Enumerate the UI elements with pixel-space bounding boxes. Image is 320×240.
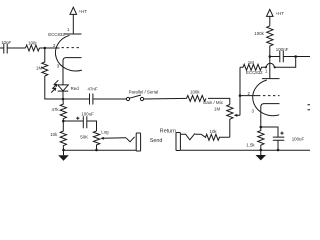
tube envelope V1b	[253, 80, 279, 116]
resistor 100k anode load	[254, 26, 273, 57]
svg-text:Log: Log	[101, 129, 109, 134]
wire 100uF to pot top	[87, 121, 97, 131]
pin 3 cathode V1a	[63, 58, 82, 85]
svg-text:100r: 100r	[28, 40, 37, 45]
node pot bottom on ground rail	[95, 149, 98, 152]
node grid V1b junction	[239, 94, 242, 97]
wire output to edge	[296, 56, 310, 58]
svg-text:100uF: 100uF	[292, 137, 305, 142]
wire anode node down to plate	[269, 57, 271, 79]
node clipped marks right edge	[308, 105, 311, 110]
wire +HT2 to 100k	[269, 16, 271, 26]
wire input stub	[0, 47, 4, 49]
resistor 1M feedback	[240, 60, 266, 70]
svg-text:ECC832: ECC832	[246, 70, 263, 75]
wire ground rail right	[181, 149, 310, 151]
wire grid node to tube	[240, 95, 258, 97]
capacitor 100nF output coupling	[276, 47, 289, 62]
svg-text:1.5k: 1.5k	[246, 142, 255, 147]
svg-text:1M: 1M	[36, 65, 42, 70]
resistor 100r grid stopper	[26, 40, 40, 51]
capacitor 100uF cathode bypass 2	[273, 132, 305, 151]
svg-text:1M: 1M	[214, 107, 220, 112]
svg-text:+HT: +HT	[276, 11, 285, 16]
wire +HT to plate	[72, 14, 74, 34]
capacitor 10nF input	[1, 40, 11, 54]
svg-text:+HT: +HT	[79, 9, 88, 14]
node cathode V1b junction	[260, 126, 263, 129]
svg-text:Return: Return	[160, 129, 176, 135]
svg-text:10k: 10k	[50, 132, 58, 137]
svg-text:Parallel / Serial: Parallel / Serial	[129, 90, 159, 95]
tube envelope V1a	[55, 35, 81, 71]
svg-text:10nF: 10nF	[1, 40, 11, 45]
wire 100k to pot top	[208, 98, 230, 104]
capacitor 100uF cathode bypass 1	[76, 111, 94, 128]
wire 47nF to switch	[93, 98, 127, 100]
resistor 1M grid leak V1a	[36, 48, 48, 76]
ground symbol 2	[256, 150, 267, 160]
wire LED to node	[62, 91, 64, 99]
connector Return jack	[160, 129, 196, 151]
pin 2 grid V1b	[258, 95, 280, 97]
pin 2 grid V1a	[62, 47, 82, 49]
capacitor 47nF coupling	[88, 87, 98, 105]
op-amp V1a triode ECC832	[48, 27, 82, 85]
wire node to 47nF	[63, 98, 90, 100]
node 100uF bottom on rail	[277, 149, 280, 152]
svg-text:50K: 50K	[80, 134, 88, 139]
svg-text:Red: Red	[71, 86, 80, 91]
svg-text:100uF: 100uF	[81, 111, 94, 116]
node output junction	[294, 55, 297, 58]
resistor 10k	[50, 121, 66, 150]
resistor 10k return	[196, 129, 230, 141]
svg-text:100nF: 100nF	[276, 47, 289, 52]
resistor 47k	[52, 99, 67, 121]
potentiometer 1M Gain/Mix	[203, 100, 240, 138]
svg-text:1M: 1M	[248, 60, 254, 65]
resistor 100k dry mix	[187, 90, 206, 102]
wire cathode node to 100uF	[261, 127, 278, 137]
pin 1 anode V1b	[262, 78, 280, 80]
node 1.5k bottom on rail	[260, 149, 263, 152]
wire 1M bottom to cathode node	[45, 76, 63, 99]
svg-text:47nF: 47nF	[88, 87, 98, 92]
op-amp V1b triode ECC832	[246, 69, 280, 127]
wire anode node to cap	[270, 56, 280, 58]
connector Send jack	[126, 133, 162, 151]
pin 3 cathode V1b	[261, 104, 280, 127]
potentiometer 50k Log send level	[80, 129, 126, 150]
resistor 1.5k cathode	[246, 127, 264, 150]
LED D1 Red bias	[51, 80, 79, 92]
ground symbol 1	[58, 150, 69, 161]
svg-text:10k: 10k	[210, 129, 218, 134]
wire cap to output node	[283, 56, 295, 58]
node anode junction	[269, 55, 272, 58]
node 47k-10k junction	[62, 120, 65, 123]
wire grid node vertical	[239, 67, 241, 115]
wire	[7, 47, 25, 49]
svg-text:47k: 47k	[52, 107, 60, 112]
power +HT supply 2	[267, 9, 285, 16]
svg-text:100k: 100k	[254, 31, 264, 36]
node cathode-output junction	[62, 98, 65, 101]
svg-text:ECC832: ECC832	[48, 32, 65, 37]
power +HT supply 1	[70, 7, 87, 14]
wiper arrow Gain/Mix	[235, 114, 240, 116]
wire crossover hop	[265, 57, 296, 69]
wire junction to 100uF	[63, 120, 83, 122]
node grid V1a junction	[44, 47, 47, 50]
node 10k bottom on ground rail	[62, 149, 65, 152]
wire ground rail left	[64, 149, 137, 151]
switch Parallel/Serial	[126, 90, 158, 101]
wiper arrow	[102, 137, 126, 140]
svg-text:100k: 100k	[190, 90, 200, 95]
wire switch to 100k	[144, 97, 187, 100]
svg-text:Send: Send	[150, 138, 163, 144]
pin 1 anode V1a	[64, 33, 82, 35]
svg-text:Gain / Mix: Gain / Mix	[203, 100, 224, 105]
wire to grid	[40, 47, 60, 49]
